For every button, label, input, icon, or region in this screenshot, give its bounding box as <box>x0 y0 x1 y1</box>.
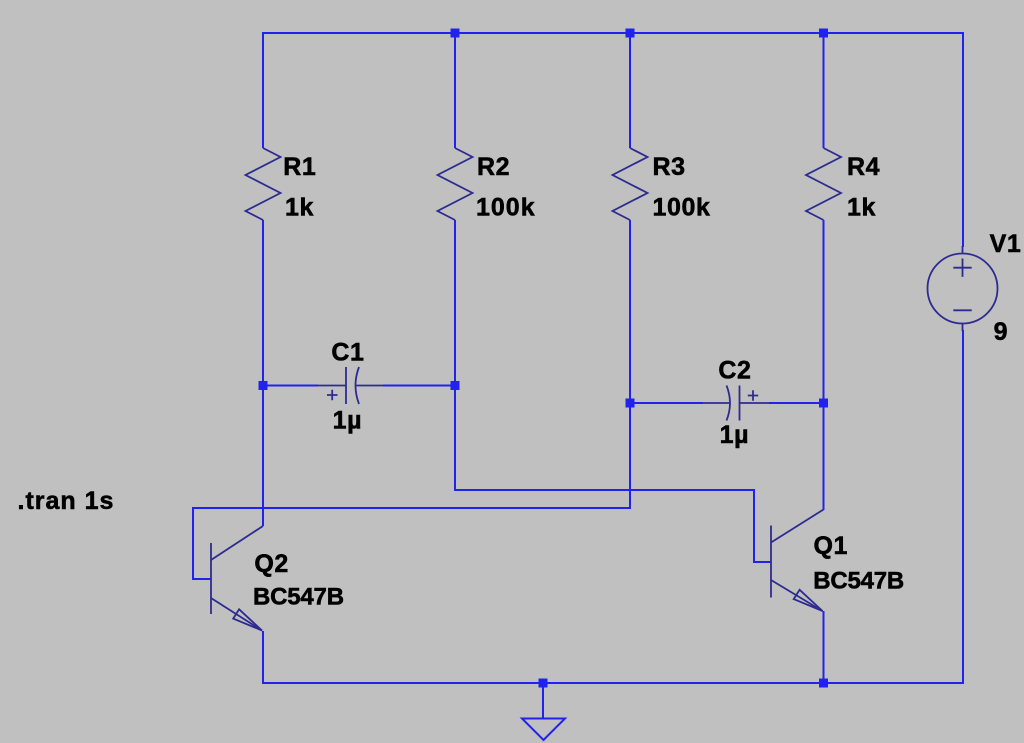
svg-text:C1: C1 <box>331 339 364 367</box>
svg-text:1µ: 1µ <box>720 421 750 449</box>
svg-text:1k: 1k <box>847 194 876 222</box>
svg-text:R4: R4 <box>847 153 880 181</box>
svg-text:100k: 100k <box>653 194 711 222</box>
svg-text:R1: R1 <box>283 153 316 181</box>
svg-text:100k: 100k <box>476 194 536 222</box>
svg-text:Q1: Q1 <box>814 532 849 560</box>
svg-text:Q2: Q2 <box>254 550 289 578</box>
svg-text:R2: R2 <box>477 153 510 181</box>
svg-text:.tran 1s: .tran 1s <box>18 487 115 515</box>
svg-text:1k: 1k <box>285 194 314 222</box>
svg-text:1µ: 1µ <box>333 406 363 434</box>
svg-text:BC547B: BC547B <box>813 568 904 595</box>
svg-text:BC547B: BC547B <box>253 583 344 610</box>
svg-text:9: 9 <box>994 318 1009 346</box>
svg-text:R3: R3 <box>653 153 686 181</box>
svg-text:V1: V1 <box>990 230 1022 258</box>
svg-text:C2: C2 <box>718 357 751 385</box>
